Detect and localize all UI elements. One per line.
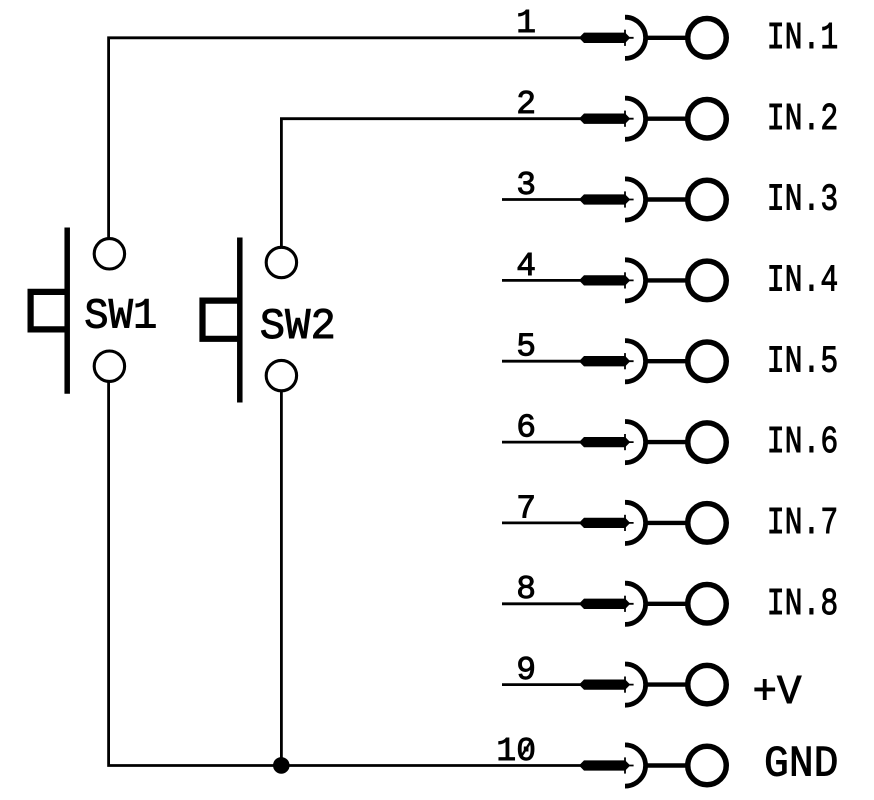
wire: SW2 bottom contact down to GND wire [280,392,283,766]
pin 4 crimp terminal [579,272,634,288]
wire: pin 9 stub [502,683,592,686]
pin 10 socket arc [625,745,646,786]
pin 6 connector circle [646,423,726,462]
pin 2 connector circle [646,99,726,138]
pin 8 socket arc [625,583,646,624]
wire: SW1 bottom contact down and across to pin 10 (GND) [109,383,592,766]
pin 3 crimp terminal [579,191,634,207]
wire: pin 7 stub [502,522,592,525]
svg-text:IN.5: IN.5 [767,339,839,383]
svg-text:7: 7 [516,490,536,527]
svg-text:SW1: SW1 [84,293,157,341]
svg-text:SW2: SW2 [260,303,336,352]
pin 9 connector circle [646,665,726,704]
switch SW2 top contact [266,247,296,277]
svg-text:8: 8 [516,571,536,608]
svg-text:GND: GND [764,741,839,790]
svg-text:6: 6 [516,410,536,447]
pin 10 connector circle [646,746,726,785]
svg-text:2: 2 [516,86,536,123]
pin 3 connector circle [646,180,726,219]
switch SW2 button bracket [203,301,240,339]
pin 6 socket arc [625,422,646,463]
switch SW1 button bracket [31,292,68,330]
pin 6 crimp terminal [579,434,634,450]
svg-text:IN.4: IN.4 [767,259,839,303]
pin 7 crimp terminal [579,515,634,531]
svg-text:9: 9 [516,652,536,689]
pin 2 crimp terminal [579,111,634,127]
pin 5 crimp terminal [579,353,634,369]
svg-text:IN.2: IN.2 [767,97,839,141]
wire: SW2 top contact up and across to pin 2 [281,119,592,247]
pin 4 socket arc [625,260,646,301]
wire: SW1 top contact up and across to pin 1 [109,38,592,238]
pin 5 socket arc [625,341,646,382]
pin 3 socket arc [625,179,646,220]
pin 1 socket arc [625,17,646,58]
wire: pin 6 stub [502,441,592,444]
svg-text:IN.8: IN.8 [767,582,839,626]
switch SW2 bottom contact [266,360,296,390]
pin 1 connector circle [646,19,726,58]
svg-text:10: 10 [496,733,536,770]
pin 5 connector circle [646,342,726,381]
junction: SW2 / GND wire [273,757,290,774]
wire: pin 5 stub [502,360,592,363]
svg-text:5: 5 [516,329,536,366]
wire: pin 8 stub [502,602,592,605]
pin 7 socket arc [625,502,646,543]
svg-text:IN.3: IN.3 [767,178,839,222]
switch SW1 top contact [94,239,124,269]
svg-text:IN.1: IN.1 [767,16,839,60]
svg-text:IN.6: IN.6 [767,420,839,464]
switch SW2 actuator bar [237,238,243,403]
svg-text:1: 1 [516,5,536,42]
pin 9 socket arc [625,664,646,705]
svg-text:+V: +V [753,670,802,716]
pin 9 crimp terminal [579,677,634,693]
pin 8 crimp terminal [579,596,634,612]
wire: pin 3 stub [502,198,592,201]
pin 2 socket arc [625,98,646,139]
pin 4 connector circle [646,261,726,300]
pin 8 connector circle [646,585,726,624]
svg-text:3: 3 [516,167,536,204]
pin 1 crimp terminal [579,30,634,46]
svg-text:IN.7: IN.7 [767,501,839,545]
svg-text:4: 4 [516,248,536,285]
switch SW1 bottom contact [94,351,124,381]
pin 10 crimp terminal [579,757,634,773]
wire: pin 4 stub [502,279,592,282]
switch SW1 actuator bar [64,228,70,394]
pin 7 connector circle [646,504,726,543]
